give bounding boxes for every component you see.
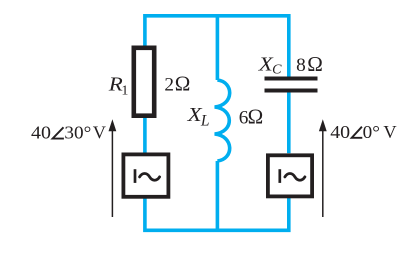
wire: middle branch bottom segment [216, 161, 220, 232]
resistor R1 body [134, 48, 154, 116]
svg-text:L: L [200, 112, 210, 129]
svg-text:V: V [93, 123, 106, 143]
svg-text:1: 1 [121, 83, 128, 98]
source V1 sine wave [140, 174, 160, 181]
svg-text:40: 40 [330, 123, 350, 143]
arrow left shaft [111, 129, 113, 217]
svg-text:8: 8 [296, 55, 306, 76]
svg-text:Ω: Ω [248, 104, 264, 128]
source V1 symbol bar [134, 169, 137, 183]
angle symbol left [53, 127, 64, 138]
wire: right branch capacitor-to-source [287, 92, 291, 153]
svg-text:0°: 0° [363, 122, 380, 142]
wire: middle branch top segment [216, 14, 220, 80]
arrow right head [319, 119, 327, 131]
angle symbol right [352, 127, 363, 138]
svg-text:30°: 30° [64, 123, 91, 143]
source V2 symbol bar [278, 169, 281, 183]
source V2 sine wave [285, 174, 305, 181]
wire: top rail with left and right drops [145, 16, 289, 77]
svg-text:C: C [272, 63, 282, 78]
svg-text:2: 2 [164, 75, 174, 96]
svg-text:V: V [383, 122, 396, 142]
arrow left head [109, 119, 117, 131]
svg-text:Ω: Ω [175, 72, 191, 96]
capacitor XC bottom plate [265, 89, 318, 93]
inductor XL coil [215, 80, 230, 161]
svg-text:40: 40 [31, 123, 51, 143]
source V1 box [123, 154, 168, 196]
source V2 box [268, 155, 312, 196]
capacitor XC top plate [265, 77, 318, 81]
wire: left branch resistor-to-source [143, 118, 147, 154]
svg-text:Ω: Ω [307, 52, 323, 76]
wire: bottom rail with left and right risers [145, 198, 289, 230]
arrow right shaft [322, 129, 324, 217]
